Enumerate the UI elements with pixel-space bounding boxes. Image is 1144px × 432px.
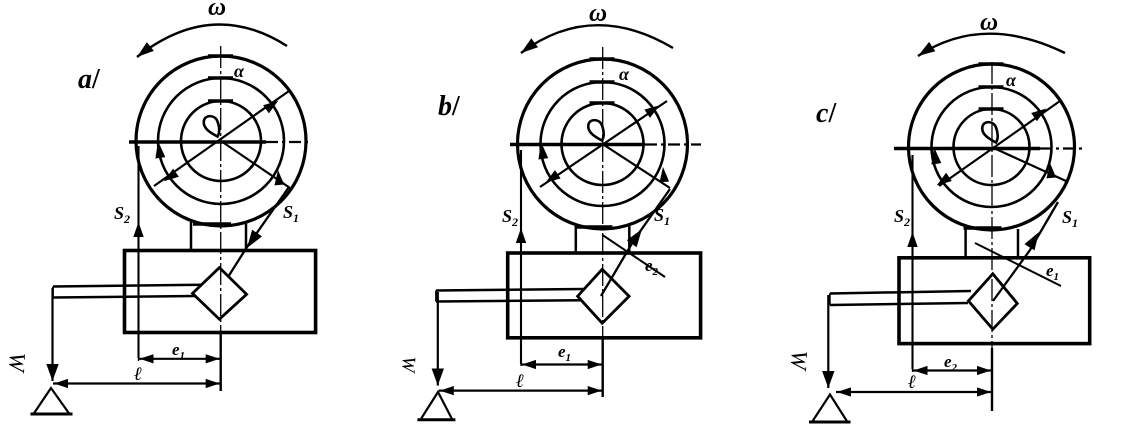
extension lines (c) bbox=[912, 345, 914, 373]
dimension line e1 (a) bbox=[139, 358, 221, 360]
pedestal (b) bbox=[575, 225, 578, 253]
pulley outer rim circle (a) bbox=[136, 56, 306, 226]
horizontal centerline (b) bbox=[510, 143, 645, 147]
weight hanger line (c) bbox=[827, 295, 829, 388]
svg-text:ℓ: ℓ bbox=[134, 364, 142, 385]
centerline tick marks on circles (a) bbox=[193, 56, 233, 224]
dimension line l (b) bbox=[439, 390, 603, 392]
pulley inner hub circle (a) bbox=[181, 101, 261, 181]
support triangle (c) bbox=[812, 395, 848, 423]
pulley inner hub circle (b) bbox=[562, 103, 644, 185]
svg-text:α: α bbox=[1006, 70, 1017, 90]
lever bar (c) bbox=[830, 291, 971, 294]
rotation arrowhead left (b) bbox=[538, 142, 548, 160]
pulley outer rim circle (b) bbox=[518, 59, 688, 229]
rotation arrowhead left (c) bbox=[931, 147, 941, 165]
svg-text:ω: ω bbox=[589, 0, 607, 27]
vertical centerline (b) bbox=[602, 47, 604, 397]
diameter line with arrows (c) bbox=[939, 101, 1060, 186]
offset dimension line near diamond (c) bbox=[975, 243, 1061, 286]
svg-text:e2: e2 bbox=[944, 352, 958, 374]
pulley middle drum circle (b) bbox=[541, 82, 665, 206]
dimension line l (a) bbox=[53, 382, 221, 384]
arrow S1 (a) bbox=[247, 230, 262, 248]
svg-text:S1: S1 bbox=[1062, 207, 1078, 230]
rotation arrow omega (b) bbox=[521, 25, 673, 53]
svg-text:ℓ: ℓ bbox=[516, 371, 524, 392]
arrow S2 (c) bbox=[907, 232, 917, 247]
dimension line e2 (c) bbox=[913, 369, 993, 371]
svg-text:ℓ: ℓ bbox=[908, 372, 916, 393]
rotation arrowhead right (a) bbox=[275, 170, 285, 185]
svg-text:e1: e1 bbox=[558, 342, 571, 364]
rotation arrowhead left (a) bbox=[155, 141, 165, 159]
vertical centerline (c) bbox=[991, 62, 993, 411]
svg-text:e1: e1 bbox=[172, 340, 185, 362]
support triangle (b) bbox=[420, 392, 452, 420]
arrow S1 (c) bbox=[1024, 232, 1039, 250]
horizontal centerline (c) bbox=[894, 147, 1040, 151]
radius line to belt point (a) bbox=[221, 141, 290, 188]
svg-text:S2: S2 bbox=[502, 206, 518, 229]
svg-text:e1: e1 bbox=[1046, 261, 1059, 283]
dimension line e1 (b) bbox=[521, 363, 603, 365]
vertical centerline (a) bbox=[220, 46, 222, 391]
pedestal (a) bbox=[190, 222, 193, 251]
svg-text:a/: a/ bbox=[78, 64, 101, 95]
lever bar (b) bbox=[436, 289, 584, 291]
diamond cam follower (a) bbox=[193, 268, 247, 320]
svg-text:W: W bbox=[4, 352, 30, 374]
arrow S1 (b) bbox=[627, 229, 642, 247]
belt force line S1 (c) bbox=[993, 202, 1058, 301]
svg-text:ω: ω bbox=[980, 9, 998, 36]
pulley outer rim circle (c) bbox=[909, 64, 1075, 230]
lever bar (a) bbox=[53, 285, 202, 287]
weight hanger line (b) bbox=[437, 292, 439, 386]
weight hanger line (a) bbox=[51, 288, 53, 381]
rotation arrow omega (a) bbox=[137, 24, 287, 57]
extension lines (b) bbox=[520, 339, 522, 367]
diameter line with arrows (b) bbox=[540, 101, 667, 187]
belt force line S2 (b) bbox=[520, 150, 522, 364]
slider block (a) bbox=[125, 251, 316, 333]
dimension line l (c) bbox=[836, 391, 992, 393]
pulley middle drum circle (c) bbox=[932, 87, 1052, 207]
rotation arrow omega (c) bbox=[918, 34, 1065, 56]
shaft key blob at center (b) bbox=[588, 120, 603, 140]
belt force line S1 (b) bbox=[601, 189, 670, 296]
svg-text:W: W bbox=[786, 350, 812, 372]
svg-text:e2: e2 bbox=[645, 256, 659, 278]
svg-text:S2: S2 bbox=[114, 203, 130, 226]
svg-text:W: W bbox=[397, 356, 419, 375]
belt force line S2 (c) bbox=[911, 155, 913, 369]
arrow S2 (a) bbox=[133, 222, 143, 237]
rotation arrowhead right (c) bbox=[1047, 163, 1057, 178]
svg-text:S2: S2 bbox=[894, 206, 910, 229]
shaft key blob at center (c) bbox=[982, 122, 997, 142]
support triangle (a) bbox=[34, 388, 70, 414]
svg-text:S1: S1 bbox=[654, 205, 670, 228]
horizontal centerline (a) bbox=[129, 140, 266, 144]
svg-text:S1: S1 bbox=[283, 202, 299, 225]
svg-text:α: α bbox=[619, 64, 630, 84]
extension lines (a) bbox=[138, 333, 140, 361]
arrow W (b) bbox=[432, 369, 444, 386]
arrow W (a) bbox=[46, 364, 58, 381]
svg-text:ω: ω bbox=[208, 0, 226, 21]
svg-text:b/: b/ bbox=[438, 91, 461, 122]
belt force line S1 (a) bbox=[228, 187, 289, 277]
arrow W (c) bbox=[822, 371, 834, 388]
radius line to belt point (c) bbox=[992, 147, 1067, 181]
arrow S2 (b) bbox=[516, 228, 526, 243]
pedestal (c) bbox=[964, 229, 967, 258]
diamond cam follower (c) bbox=[968, 274, 1017, 329]
svg-text:c/: c/ bbox=[816, 98, 837, 129]
diameter line with arrows (a) bbox=[154, 91, 289, 186]
pulley middle drum circle (a) bbox=[158, 78, 284, 204]
centerline tick marks on circles (c) bbox=[964, 64, 1004, 228]
radius line to belt point (b) bbox=[603, 144, 671, 188]
slider block (c) bbox=[899, 258, 1090, 344]
rotation arrowhead right (b) bbox=[660, 167, 670, 182]
svg-text:α: α bbox=[234, 61, 245, 81]
slider block (b) bbox=[508, 253, 701, 338]
diamond cam follower (b) bbox=[578, 269, 630, 323]
pulley inner hub circle (c) bbox=[954, 109, 1030, 185]
centerline tick marks on circles (b) bbox=[575, 59, 615, 227]
belt force line S2 (a) bbox=[137, 146, 139, 358]
offset dimension line near diamond (b) bbox=[603, 235, 666, 277]
shaft key blob at center (a) bbox=[204, 116, 219, 136]
